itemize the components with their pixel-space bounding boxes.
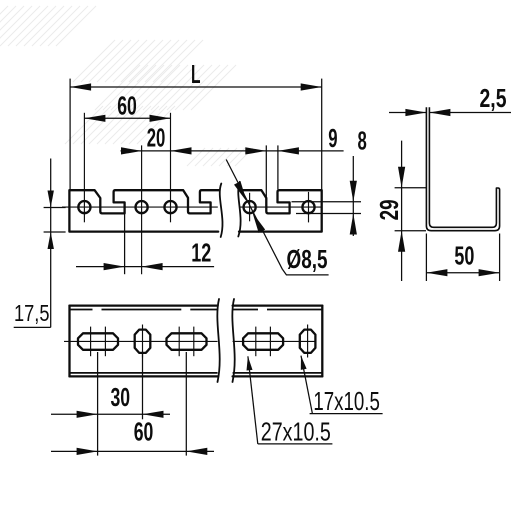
side view channel outline (right of break) — [239, 190, 322, 231]
svg-text:9: 9 — [328, 123, 337, 153]
bottom view bottom outer edge — [70, 375, 323, 377]
dimension 20 arrows — [121, 147, 192, 154]
dimension 50 line — [426, 272, 499, 274]
small hole 2 17x10.5 — [300, 330, 316, 353]
leader 17x10.5 line — [301, 356, 312, 414]
oval slot 3 27x10.5 — [243, 333, 283, 350]
slot arc-center crosshairs — [91, 327, 271, 357]
dimension L extension line right (bar end) — [321, 79, 323, 190]
leader 27x10.5 underline — [258, 443, 333, 445]
small hole 1 17x10.5 — [135, 330, 151, 353]
dimension L extension line left — [69, 79, 71, 190]
bottom view centerline — [64, 340, 317, 342]
dimension 9 extension lines — [265, 145, 267, 200]
watermark hatch patches — [0, 6, 253, 166]
leader 27x10.5 line — [248, 356, 258, 444]
hole 2 Diam 8,5 — [136, 201, 148, 213]
hole 5 vertical centerline / extension — [308, 192, 310, 223]
dimension 17,5 arrows — [48, 191, 54, 250]
svg-text:2,5: 2,5 — [480, 83, 507, 113]
svg-text:20: 20 — [147, 122, 166, 152]
hole 5 Diam 8,5 — [302, 201, 314, 213]
side view centerline — [62, 206, 322, 208]
leader Diam 8,5 arrows — [234, 181, 265, 233]
dimension 12 arrows — [104, 263, 163, 270]
bottom view break line left — [217, 299, 219, 382]
svg-text:27x10.5: 27x10.5 — [261, 416, 331, 446]
dimension 29 ticks — [395, 187, 426, 189]
hole 4 vertical centerline / extension — [249, 193, 251, 222]
svg-text:12: 12 — [191, 237, 211, 267]
hole 3 vertical centerline / extension — [170, 113, 172, 223]
dimension 2,5 arrows — [405, 109, 450, 116]
dimension 2,5 line right — [429, 112, 511, 114]
label Diam 8,5 underline — [282, 269, 328, 275]
oval slot 2 27x10.5 — [167, 333, 207, 350]
dimension 12 line — [76, 266, 214, 268]
dimension 17,5 line — [50, 159, 52, 328]
svg-text:29: 29 — [374, 199, 404, 220]
bottom view top outer edge — [70, 304, 323, 306]
bottom view outline left edge — [68, 306, 70, 377]
dimension 29 line — [401, 141, 403, 281]
svg-text:60: 60 — [117, 91, 137, 121]
dimension 20 and 9 shared line — [121, 150, 344, 152]
dimension 9 arrows — [245, 147, 299, 154]
bottom view top inner bend line — [70, 309, 323, 311]
cross-section U profile with wall extension — [426, 107, 499, 231]
svg-text:50: 50 — [454, 240, 474, 270]
side view channel outline (left of break) — [69, 190, 219, 231]
dimension 29 arrows — [398, 167, 405, 252]
dimension L line — [70, 86, 322, 88]
dimension 8 arrows — [350, 181, 357, 235]
dimension 8 extension ticks — [292, 201, 362, 203]
svg-text:8: 8 — [358, 125, 367, 155]
small hole crosshairs — [142, 325, 144, 358]
dimension 30/60 extension lines — [97, 352, 99, 456]
leader 17x10.5 arrow — [301, 356, 307, 370]
dimension 60 (bottom) line — [51, 450, 214, 452]
dimension 30 line — [51, 413, 170, 415]
dimension 12 extension line (slot hook) — [124, 204, 126, 275]
dimension 17,5 ticks — [44, 207, 66, 209]
leader line Diam 8,5 — [226, 160, 282, 270]
hole 4 Diam 8,5 — [244, 201, 256, 213]
dimension 50 extension lines — [425, 234, 427, 282]
side view break line left — [220, 184, 223, 238]
bottom view outline right edge — [321, 306, 323, 377]
hole 1 vertical centerline / extension — [83, 113, 85, 223]
bottom view break line right — [232, 299, 234, 382]
dimension L arrows — [70, 83, 322, 90]
side view break line right — [238, 182, 240, 237]
dimension 30 arrows — [77, 411, 164, 418]
svg-text:30: 30 — [111, 382, 131, 412]
svg-text:17,5: 17,5 — [14, 300, 50, 326]
hole 3 Diam 8,5 — [164, 201, 176, 213]
bottom view bottom inner bend line — [70, 372, 323, 374]
hole 2 vertical centerline / extension — [141, 145, 143, 274]
svg-text:L: L — [191, 59, 201, 89]
dimension 50 arrows — [426, 269, 499, 276]
dimension 8 line — [352, 156, 354, 236]
svg-text:60: 60 — [134, 417, 154, 447]
leader 17x10.5 underline — [310, 413, 383, 415]
svg-text:Ø8,5: Ø8,5 — [287, 244, 328, 274]
dimension 60 arrows — [84, 115, 170, 122]
oval slot 1 27x10.5 — [78, 333, 118, 350]
dimension 2,5 line left — [389, 112, 426, 114]
dimension 60 (bottom) arrows — [77, 448, 208, 455]
svg-text:17x10.5: 17x10.5 — [313, 386, 380, 416]
hole 1 Diam 8,5 — [78, 201, 90, 213]
dimension 60 line — [84, 117, 170, 119]
leader 27x10.5 arrow — [247, 356, 253, 370]
